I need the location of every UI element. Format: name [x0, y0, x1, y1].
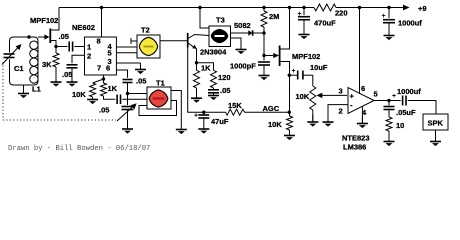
resistor 10 (zobel) — [386, 117, 392, 141]
svg-text:T2: T2 — [141, 26, 150, 35]
svg-text:+9: +9 — [418, 4, 427, 13]
capacitor C (2nd gang variable) — [122, 107, 134, 126]
svg-text:10K: 10K — [296, 92, 310, 101]
resistor 3K — [53, 47, 59, 68]
transformer T1 box — [147, 87, 171, 109]
svg-text:3K: 3K — [42, 60, 52, 69]
transistor Q2 2N3904 — [188, 33, 209, 63]
svg-text:.05: .05 — [59, 32, 69, 41]
svg-text:SPK: SPK — [428, 119, 444, 128]
wire to speaker — [408, 101, 436, 115]
transformer T3 box — [209, 26, 231, 47]
wire pin3 to ground — [116, 62, 140, 64]
wire tank to Q1 gate — [38, 36, 45, 38]
ground (T1 right) — [176, 129, 187, 134]
node 47uF — [202, 111, 205, 114]
svg-text:.05: .05 — [62, 70, 72, 79]
node: tank top junction — [27, 35, 30, 38]
ground (zobel) — [384, 141, 395, 146]
wire pin8 to rail — [101, 8, 103, 38]
resistor 10K (pin7) — [90, 79, 104, 97]
svg-text:.05: .05 — [136, 77, 146, 86]
svg-text:1000uf: 1000uf — [397, 87, 421, 96]
ground (47uF) — [198, 129, 209, 134]
wire pin2 — [328, 105, 348, 118]
svg-text:1: 1 — [87, 43, 91, 52]
resistor 15K — [226, 109, 245, 115]
ground (1000uf supply) — [384, 35, 395, 40]
+9 arrow head — [403, 5, 410, 11]
svg-text:+: + — [194, 113, 198, 120]
svg-text:470uF: 470uF — [314, 19, 336, 28]
svg-text:6: 6 — [361, 84, 365, 93]
capacitor .05 (pin 2) — [67, 65, 78, 76]
wire pin2 to cap — [72, 55, 85, 63]
wire pin6 to rail — [359, 8, 361, 95]
capacitor C1 (variable) — [4, 54, 15, 58]
top supply rail — [59, 7, 314, 9]
svg-text:L1: L1 — [32, 85, 41, 94]
tank loop wire — [10, 37, 39, 85]
ground (pin2) — [323, 118, 334, 127]
ground (1K emitter) — [191, 97, 202, 103]
resistor 1K (emitter) — [194, 63, 200, 97]
op-amp U1 NE602 box — [85, 37, 117, 75]
svg-text:+: + — [392, 93, 396, 100]
wire T2 to Q2 base — [160, 40, 188, 42]
capacitor .05 (120 bypass) — [208, 88, 219, 93]
wire T3 to diode — [231, 32, 247, 34]
AGC wire to source node — [245, 111, 290, 113]
svg-text:.05: .05 — [220, 86, 230, 95]
capacitor 47uF — [198, 112, 209, 128]
output wire pin5 — [374, 100, 401, 102]
capacitor 1000uf (output) — [402, 96, 404, 106]
variable arrow (2nd gang) — [117, 103, 137, 121]
pot wiper arrow — [316, 93, 347, 98]
svg-text:MPF102: MPF102 — [292, 52, 320, 61]
resistor 120 — [197, 63, 217, 88]
svg-text:2N3904: 2N3904 — [200, 48, 227, 57]
svg-text:.05: .05 — [99, 106, 109, 115]
capacitor .05uF (zobel) — [384, 101, 395, 118]
antenna dashed line horizontal — [3, 119, 116, 121]
svg-text:NTE823: NTE823 — [342, 134, 370, 143]
svg-text:47uF: 47uF — [211, 117, 229, 126]
svg-text:2M: 2M — [269, 12, 279, 21]
AGC feedback wire — [188, 47, 226, 112]
capacitor 1000pF — [258, 61, 270, 63]
ground (1000pF) — [259, 73, 270, 81]
resistor 2M — [261, 8, 267, 34]
svg-text:8: 8 — [97, 37, 101, 46]
wire SPK to ground — [435, 130, 437, 141]
node diode/2M — [262, 31, 265, 34]
ground (3K) — [51, 67, 62, 87]
speaker SPK box — [423, 114, 448, 130]
antenna dashed line vertical — [2, 62, 4, 120]
ground (pot) — [307, 115, 318, 127]
ground (pin4) — [357, 118, 368, 128]
ground (pin3) — [135, 63, 146, 74]
capacitor 10uF — [289, 71, 313, 80]
ground (SPK) — [430, 141, 441, 146]
wire pin5 to T2 — [116, 52, 137, 54]
transistor Q3 MPF102 (JFET) — [264, 8, 290, 68]
svg-text:Drawn by - Bill Bowden - 06/18: Drawn by - Bill Bowden - 06/18/07 — [8, 145, 150, 153]
svg-text:7: 7 — [97, 64, 101, 73]
svg-text:120: 120 — [218, 73, 231, 82]
T1 core (red) — [149, 90, 168, 107]
ground (T3) — [236, 49, 247, 54]
wire T3 secondary to ground — [231, 38, 242, 49]
ground (.05 bypass) — [208, 93, 219, 100]
node pin6/T1 — [126, 92, 129, 95]
wire T1 right pin down — [171, 91, 181, 130]
svg-text:10K: 10K — [72, 90, 86, 99]
svg-text:10uF: 10uF — [310, 63, 328, 72]
ground (10K) — [87, 97, 98, 104]
svg-text:1000uf: 1000uf — [398, 19, 422, 28]
resistor 1K (pin7) — [101, 81, 116, 99]
svg-text:LM386: LM386 — [343, 143, 366, 152]
node Q1 source — [54, 45, 57, 48]
svg-text:220: 220 — [335, 9, 348, 18]
op-amp U2 LM386 triangle — [348, 88, 374, 114]
svg-text:-: - — [350, 101, 353, 110]
svg-text:15K: 15K — [228, 101, 242, 110]
C1 variable arrow — [2, 44, 22, 65]
T2 left stub — [131, 38, 137, 44]
potentiometer 10K volume — [310, 75, 316, 121]
capacitor .05 (Q1 to pin1) — [56, 42, 85, 52]
wire pin4 to ground — [361, 107, 363, 124]
ground (pin2 cap) — [67, 76, 78, 87]
T1 secondary loop wire — [139, 101, 177, 116]
svg-text:AGC: AGC — [263, 104, 280, 113]
transistor Q1 MPF102 (JFET) — [50, 8, 59, 47]
ground (470uF) — [299, 34, 310, 39]
svg-text:1000pF: 1000pF — [230, 62, 256, 71]
node Q3 gate — [262, 54, 265, 57]
svg-text:2: 2 — [339, 107, 343, 116]
svg-text:T3: T3 — [216, 16, 225, 25]
inductor L1 — [30, 41, 38, 49]
resistor 10K (source) — [287, 116, 293, 135]
T3 core (black) — [211, 29, 228, 43]
svg-text:+: + — [292, 68, 296, 75]
capacitor 1000uf (supply) — [383, 8, 395, 36]
svg-text:C1: C1 — [14, 64, 24, 73]
wire pin6 down — [116, 70, 127, 78]
svg-text:10K: 10K — [268, 120, 282, 129]
svg-text:T1: T1 — [156, 79, 165, 88]
diode 5082 — [246, 30, 264, 35]
wire to T1 upper-left pin — [128, 93, 148, 95]
svg-text:+: + — [382, 13, 386, 20]
svg-text:10: 10 — [396, 121, 404, 130]
ground (2nd gang) — [122, 125, 133, 134]
svg-text:5082: 5082 — [234, 21, 251, 30]
svg-text:1K: 1K — [201, 64, 211, 73]
wire pin4 to T2 — [116, 46, 137, 48]
svg-text:2: 2 — [87, 52, 91, 61]
svg-text:NE602: NE602 — [72, 23, 95, 32]
capacitor 470uF — [298, 8, 310, 35]
svg-text:MPF102: MPF102 — [30, 16, 58, 25]
wire cap to T1 lower pin — [122, 98, 147, 100]
svg-text:.05uF: .05uF — [396, 108, 416, 117]
svg-text:3: 3 — [339, 87, 343, 96]
svg-text:+: + — [350, 92, 355, 101]
svg-text:6: 6 — [106, 64, 110, 73]
transformer T2 box — [137, 35, 160, 58]
wire pin7 down — [103, 75, 105, 81]
capacitor .05 (pin6) — [123, 80, 133, 106]
node Q2 emitter — [195, 61, 198, 64]
ground (tank) — [18, 85, 29, 98]
wire detector node down — [263, 33, 265, 61]
svg-text:1K: 1K — [108, 84, 118, 93]
svg-text:+: + — [298, 11, 302, 18]
capacitor .05 (1K to T1) — [116, 95, 118, 105]
wire Q3 source down — [289, 62, 291, 117]
svg-text:5: 5 — [374, 90, 378, 99]
T2 core (yellow) — [139, 37, 157, 55]
ground (10K source) — [284, 135, 295, 140]
wire rail to T3 — [200, 8, 209, 29]
resistor 220 — [314, 4, 336, 11]
